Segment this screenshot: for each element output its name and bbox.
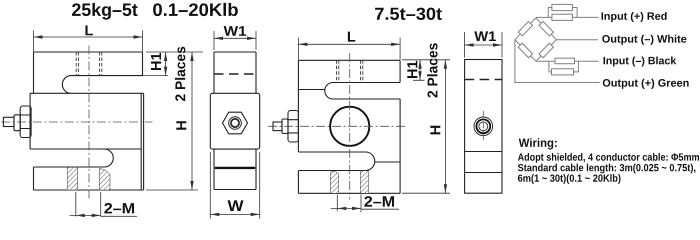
- load cell body d1 outline: [34, 52, 143, 93]
- wiring note line 1: [518, 153, 699, 163]
- 2-M dimension d1: [70, 192, 138, 217]
- plug circles sv1: [229, 117, 242, 130]
- label W1 sv1: [224, 26, 247, 36]
- label Output (-) White: [602, 35, 686, 45]
- horizontal centerline d2: [268, 125, 407, 127]
- resistor bottom inline: [555, 58, 575, 64]
- lower slot d1: [34, 149, 114, 167]
- H dimension d1: [146, 52, 198, 190]
- upper slot d2: [325, 83, 400, 100]
- hatched hole wall left d2: [330, 171, 338, 193]
- horizontal centerline d1: [1, 121, 153, 123]
- label H d1 (rotated): [176, 121, 186, 130]
- L dimension d1: [34, 31, 143, 52]
- H1 dimension d2: [402, 60, 450, 81]
- title 0.1-20Klb: [153, 3, 238, 16]
- wire output+: [515, 40, 600, 83]
- hidden thread lines d2: [337, 60, 363, 82]
- middle block d1 right double edge: [141, 93, 143, 190]
- label H1 d1 (rotated): [151, 53, 161, 70]
- resistor bottom branch lower: [552, 69, 574, 75]
- resistor BR leg: [539, 43, 553, 58]
- title 25kg-5t: [72, 3, 138, 20]
- label W sv1: [228, 200, 244, 211]
- resistor TL leg: [518, 21, 532, 36]
- lower slot line sv1: [215, 167, 255, 169]
- label 2 Places d2 (rotated): [427, 43, 437, 97]
- bottom bar d2: [298, 171, 400, 194]
- upper slot d1: [30, 76, 144, 94]
- wire output-: [556, 39, 598, 41]
- top parallel branch: [548, 8, 577, 18]
- wiring note line 2: [518, 164, 696, 174]
- hatched hole wall left d1: [67, 167, 77, 190]
- vertical centerline d2: [349, 53, 351, 200]
- vertical centerline d1: [88, 46, 90, 201]
- label Input (-) Black: [604, 56, 677, 66]
- W dimension sv1: [210, 152, 259, 219]
- load cell body d2 outline: [298, 60, 400, 152]
- plug centerline sv2: [482, 111, 484, 142]
- bottom bar d1: [34, 167, 144, 190]
- plug circles sv2: [474, 117, 493, 136]
- label 2-M d2: [364, 196, 394, 206]
- side view 1 lower bars: [214, 149, 256, 189]
- resistor BL leg: [518, 43, 532, 58]
- wiring note line 3: [518, 174, 621, 184]
- label H1 d2 (rotated): [407, 61, 417, 78]
- bridge diamond: [515, 18, 556, 61]
- hidden thread lines d1: [76, 52, 102, 76]
- hidden slot line sv1: [214, 73, 256, 75]
- L dimension d2: [298, 38, 400, 60]
- side view 1 top bar: [214, 52, 256, 93]
- side view 2 body: [465, 60, 502, 194]
- label Input (+) Red: [602, 12, 667, 22]
- lower ledge d2: [375, 161, 400, 163]
- side view 1 middle block: [210, 93, 259, 149]
- big hole circle d2: [330, 107, 369, 146]
- H1 dimension d1: [143, 52, 203, 76]
- bottom parallel branch: [549, 61, 579, 72]
- label 2 Places d1 (rotated): [175, 47, 185, 101]
- H dimension d2: [402, 60, 450, 193]
- hidden slot line sv2: [465, 79, 502, 81]
- resistor TR leg: [539, 21, 553, 36]
- middle block d1 left edge: [30, 93, 141, 149]
- wire input+: [536, 16, 599, 18]
- W1 dimension sv2: [465, 32, 502, 58]
- label Output (+) Green: [603, 79, 689, 89]
- hex plug sv1: [223, 112, 248, 134]
- label W1 sv2: [474, 31, 496, 41]
- resistor top branch upper: [552, 4, 573, 10]
- lower slot d2: [298, 152, 374, 171]
- 2-M dimension d2: [331, 195, 399, 213]
- hatched hole wall right d2: [360, 171, 368, 194]
- label 2-M d1: [104, 203, 134, 213]
- label L d2: [348, 32, 355, 42]
- upper ledge d2: [298, 89, 325, 91]
- label L d1: [85, 25, 92, 35]
- label H d2 (rotated): [430, 126, 440, 135]
- label Wiring:: [519, 138, 557, 149]
- resistor top branch inline: [552, 14, 573, 20]
- wire input-: [536, 60, 599, 62]
- W1 dimension sv1: [214, 31, 256, 50]
- right edge lower d2: [399, 99, 401, 193]
- title 7.5t-30t: [375, 8, 442, 20]
- cable gland d1: [3, 106, 31, 138]
- hatched hole wall right d1: [99, 169, 110, 191]
- cable gland d2: [273, 111, 298, 143]
